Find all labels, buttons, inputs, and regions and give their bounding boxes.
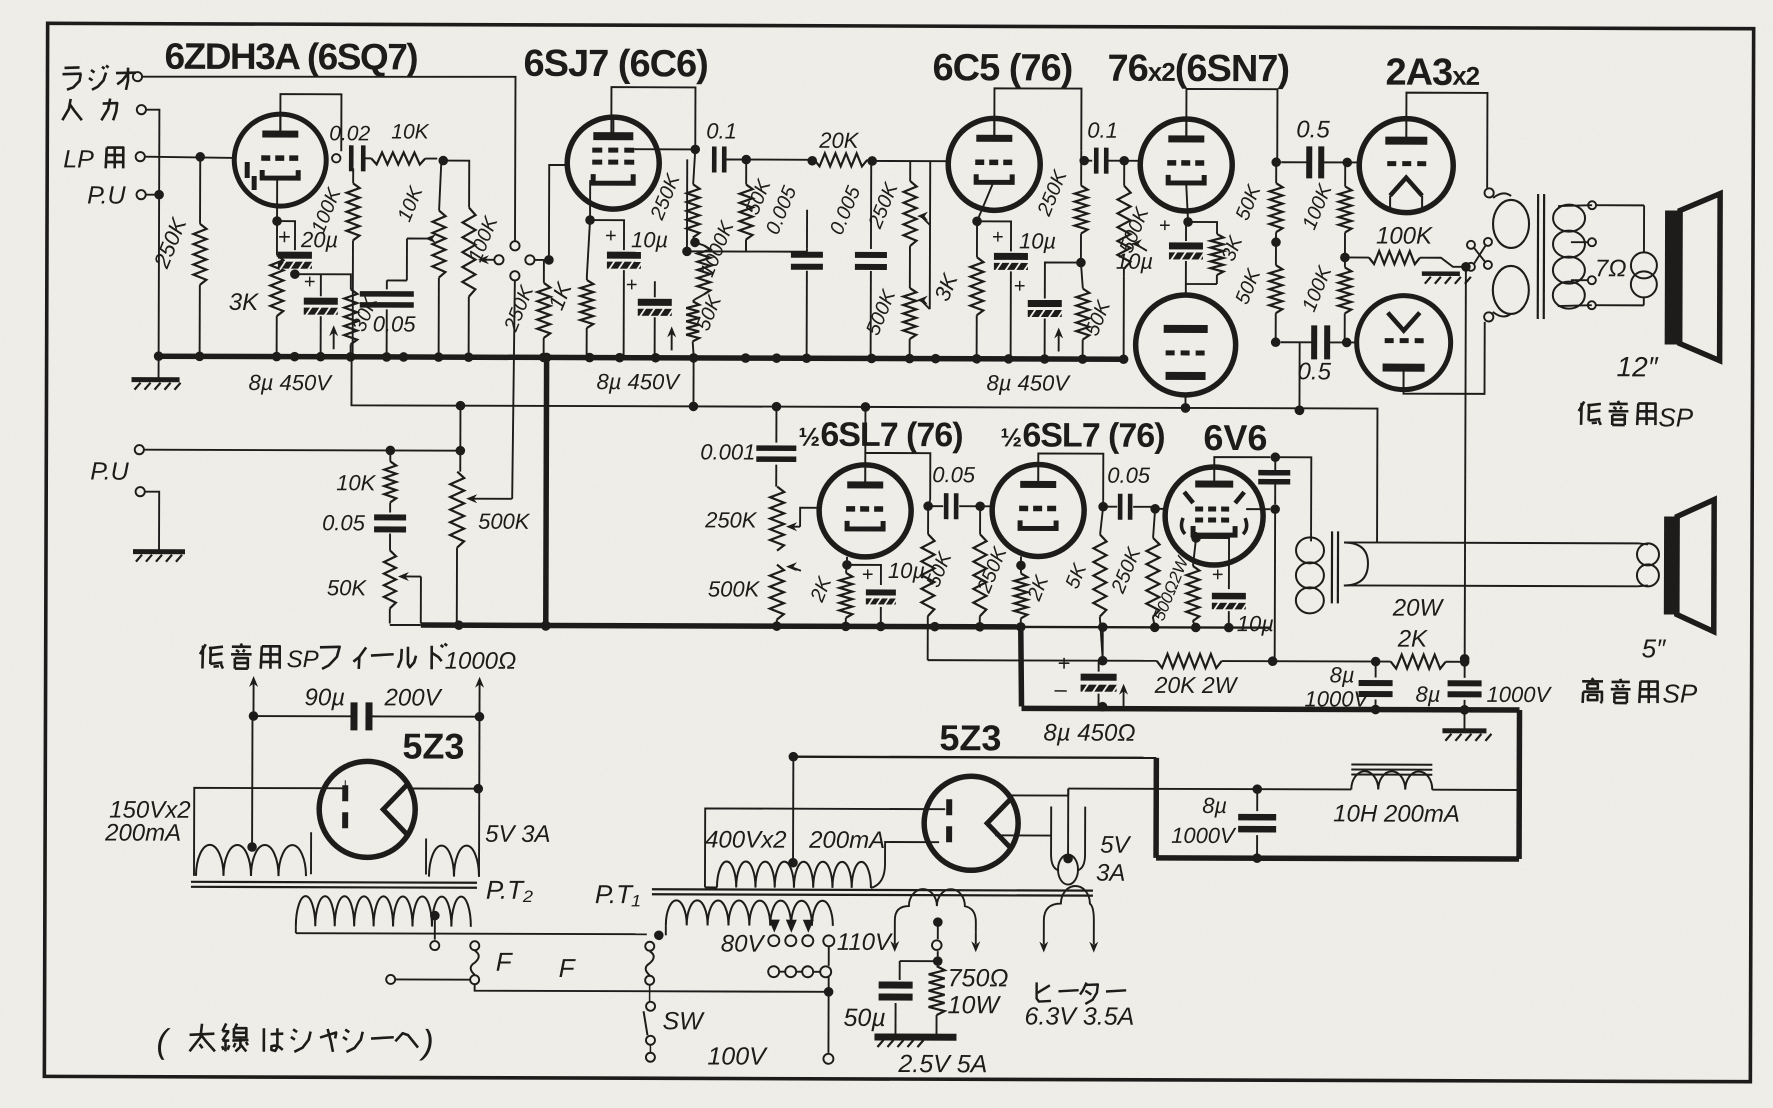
wire 6v6 grid [1155,508,1166,510]
node V2 plate node [690,145,700,155]
resistor 50K coupling [745,160,747,185]
capacitor 0.5 upper [1306,146,1312,178]
opt2 core [1331,531,1333,603]
wire pt2 tap down [434,916,436,940]
capacitor 0.5 lower [1311,325,1317,359]
fuse F pt1 terminal b [645,976,654,985]
note kanji 1 [190,1034,215,1035]
wire 20Kright to grid chain [872,160,948,162]
node 6v6 right [1270,504,1280,514]
label LP-yo kanji [106,148,107,169]
wire tweeter line bottom [1344,584,1638,587]
svg-text:–: – [1055,677,1068,702]
svg-text:1000V: 1000V [1171,823,1237,848]
capacitor 8u450V c [1028,300,1062,307]
node 01b right [1119,156,1129,166]
svg-text:+: + [605,225,617,247]
node 20K left [807,156,817,166]
tube V9 6SL7b [992,464,1084,556]
wire V3 cathode [977,180,994,221]
ground bus top [156,356,1124,359]
note kanji 2 [263,1028,266,1051]
resistor 50K pu [384,550,396,608]
node V3 cathode [972,216,982,226]
svg-text:+: + [992,226,1004,248]
wire V3 plate top [994,88,1081,150]
speaker 12in voice coil [1631,252,1657,278]
wire V4 cathode [1186,183,1188,221]
mid bus dots [454,620,464,630]
svg-text:10µ: 10µ [1116,249,1153,274]
node V8 cathode [842,560,852,570]
wire pt2 ct up [251,716,253,847]
wire 10u v3 bottom [1010,271,1012,356]
resistor 50K v2b [693,299,695,301]
resistor 250K v2 plate [693,149,695,184]
resistor 250K v3 plate [1080,151,1082,186]
svg-text:0.5: 0.5 [1296,116,1330,143]
tube V2 6SJ7 [567,117,659,209]
svg-text:6V6: 6V6 [1203,417,1267,458]
capacitor 8u1000V a [1359,680,1393,686]
wire 6v6 plate top [1214,457,1270,467]
node LP junction [195,152,205,162]
wire v2b net [686,159,688,251]
terminal input2 [137,105,146,114]
wire thick left vert [1153,758,1159,858]
wire 5V up [1067,789,1069,859]
wire thick bottom [1156,858,1519,859]
terminal 2.5V [932,940,942,950]
resistor 500K pot [450,472,464,548]
speaker 12in horn [1665,210,1680,344]
resistor 20K [814,153,867,166]
capacitor 0.05 sl7b [1118,494,1123,520]
winding 5V legs [1051,807,1085,871]
resistor 1000K [697,245,710,294]
svg-text:8µ: 8µ [1330,662,1355,687]
svg-text:SP: SP [1663,678,1698,708]
resistor 100K v1 plate [352,168,354,183]
fuse F pt1 [646,951,654,975]
svg-text:P.T₁: P.T₁ [595,879,640,909]
node pt1 ct [788,858,798,868]
svg-text:0.05: 0.05 [322,510,366,535]
wire 750 node wires [900,960,938,962]
capacitor 90u [350,702,357,730]
svg-text:+: + [862,564,874,586]
winding pt1 sec [717,861,871,887]
speaker 5in horn [1664,516,1677,614]
svg-text:500K: 500K [478,509,531,534]
svg-text:½: ½ [1000,422,1022,452]
arrow 8u450 c [1058,332,1060,352]
svg-text:90µ: 90µ [305,684,346,711]
ground heater [874,1033,956,1040]
choke core [1351,763,1432,765]
node fb [1461,262,1471,272]
svg-text:7Ω: 7Ω [1595,255,1627,282]
primary taps triangles [769,920,814,933]
opt1 cross wires [1474,248,1486,263]
wire 20u bottom [294,270,296,272]
wire tweeter line top [1344,541,1638,544]
tube V8 6SL7a [819,465,911,557]
svg-text:12″: 12″ [1617,351,1659,382]
ground bus middle [421,625,1021,627]
label tweeter SP kanji [1592,678,1594,680]
resistor 50K sn7 b [1275,242,1277,265]
arrow 2.5V a [890,941,899,952]
capacitor 8u 450ohm [1081,674,1117,681]
svg-text:P.U: P.U [87,181,126,209]
wire pt1 sec right hook [871,842,939,888]
wire V2 plate top [611,87,695,147]
resistor 500ohm 6v6 [1193,538,1196,566]
node 546 bottom [541,621,551,631]
wire V1 cathode down [276,176,278,220]
arrow 500K v4 [1135,244,1147,251]
svg-text:5Z3: 5Z3 [939,717,1001,758]
node b+ dots [689,402,699,412]
wire 5z3b plate [1008,794,1068,796]
selector contact 4 [510,271,519,280]
arrow 6.3V b [1089,942,1098,953]
tube V10 6V6 [1165,467,1263,565]
node 2.5V ct [933,917,943,927]
node rail dots [1098,656,1108,666]
arrow wiper 500K6c5 [921,300,930,309]
opt1 cross circles [1467,241,1475,249]
node 05a left [1271,157,1281,167]
wire V5 top [1185,284,1187,295]
svg-text:8µ: 8µ [1202,793,1227,818]
fuse F pt1 terminal a [645,942,654,951]
svg-text:0.05: 0.05 [932,462,976,487]
node v2 1000K [690,238,700,248]
wire pt2 to 100V line [475,985,827,992]
svg-text:76x2(6SN7): 76x2(6SN7) [1107,48,1289,91]
opt1 secondary loops [1553,205,1585,232]
wire LP to V1 grid [145,157,235,158]
tap rings row1 [768,935,779,946]
svg-text:1000V: 1000V [1487,682,1553,707]
arrow 250K tone [790,526,800,528]
svg-text:1000V: 1000V [1305,686,1371,711]
node B- dots [1098,702,1108,712]
wire to 20u [277,221,295,250]
resistor 250K 6c5grid [909,161,911,181]
node V9 plate [1098,502,1108,512]
opt1 primary terminal top [1485,188,1494,197]
wire 0.1 to 20K [725,158,812,160]
capacitor 0.05 top-section [360,291,414,297]
arrow 2.5V b [971,941,980,952]
svg-text:+: + [626,274,638,296]
node 20K right [867,156,877,166]
wire pt2 cd [396,978,470,980]
svg-text:6ZDH3A (6SQ7): 6ZDH3A (6SQ7) [164,36,417,78]
wire 2.5V ct down [937,922,939,939]
wire 400V box [705,808,945,888]
capacitor 20u electrolytic [278,252,312,259]
tube V1 6ZDH3A [234,114,326,206]
wire choke line [1068,788,1351,791]
wire bias to 8u and 30K [295,274,351,289]
svg-text:10K: 10K [336,470,377,495]
capacitor 0.02 [349,145,354,171]
arrow 8u450 a [333,329,335,349]
node choke line dots [1252,784,1262,794]
terminal PU1 [137,190,146,199]
resistor 100K fb [1345,256,1369,258]
svg-text:SP: SP [287,646,319,673]
node sl7b grid node [975,501,985,511]
wire V8 plate from B+ [864,407,866,453]
capacitor 0.005 a [791,252,823,258]
wire 6v6 right down [1274,509,1276,660]
wire 6v6 plate to opt [1275,457,1311,531]
svg-text:5Z3: 5Z3 [402,725,464,766]
terminal radio [133,72,142,81]
svg-text:250K: 250K [704,507,758,532]
arrow 500K tone [790,567,801,571]
svg-text:0.02: 0.02 [329,122,370,145]
winding pt1 primary [666,900,833,926]
svg-text:1000Ω: 1000Ω [445,648,517,675]
wire sl7a 10u [847,565,881,585]
node V1 cathode [272,216,282,226]
node ct [789,752,799,762]
wire radio to selector [142,76,516,241]
wire thick drop [1021,627,1022,707]
choke 10H loops [1351,771,1432,789]
capacitor 10u sl7 [866,589,896,595]
resistor 2K sl7b [1020,565,1022,573]
capacitor 8u450V b [638,299,672,306]
wire 6v6 cathode [1195,532,1197,536]
node V4 cathode [1183,217,1193,227]
wire cathode to 1K [587,220,590,276]
wire selector to grid bus [535,259,546,261]
wire 05b [1281,341,1312,343]
node V2 cathode [585,215,595,225]
wire V2 screen right [634,148,695,150]
wire V9 cathode [1020,556,1022,563]
terminal PU2 b [136,487,145,496]
wire V1 plate to top [280,94,341,151]
svg-text:6C5 (76): 6C5 (76) [932,47,1072,89]
svg-text:50µ: 50µ [843,1004,885,1032]
node 100V line [824,987,834,997]
node 100K mid [1340,253,1350,263]
svg-text:200mA: 200mA [104,820,181,847]
wire mid node h [746,251,807,253]
terminal LP [136,152,145,161]
svg-text:6SJ7 (6C6): 6SJ7 (6C6) [523,43,707,86]
wire feedback vertical [1465,267,1466,657]
node PU1 junction [154,190,164,200]
resistor 1K v2 [586,276,588,280]
wire V8 plate box [865,453,930,500]
selector contact 3 [525,255,534,264]
svg-text:5V 3A: 5V 3A [485,821,550,848]
svg-text:6.3V 3.5A: 6.3V 3.5A [1025,1002,1135,1030]
ground fb [1422,271,1460,276]
svg-text:6SL7 (76): 6SL7 (76) [820,416,962,454]
node sn7 mid [1271,237,1281,247]
wire PU2 line [144,449,460,452]
svg-text:SP: SP [1658,402,1693,432]
resistor 750ohm [929,966,945,1015]
resistor 3K v3 [976,221,978,257]
svg-text:500K: 500K [708,576,761,601]
svg-text:+: + [1058,651,1071,676]
winding pt2 sec right [429,846,479,877]
svg-text:8µ 450V: 8µ 450V [986,370,1071,395]
wire 0.05b leads [1102,501,1104,507]
resistor 250K tone [770,487,784,551]
bus junction dots [154,351,164,361]
svg-text:8µ 450V: 8µ 450V [597,369,682,394]
svg-text:110V: 110V [837,929,893,956]
svg-text:+: + [1159,215,1171,237]
wire v3 10u [977,221,1011,251]
core pt1 [652,889,1093,890]
terminal PU2 a [135,445,144,454]
svg-text:3K: 3K [229,289,259,316]
wire 10u v4 bottom [1186,261,1217,284]
wire V6 plate top [1406,93,1487,188]
wire 5z3a fil left [321,787,345,789]
wire input2 down [146,110,160,354]
node 5z3a plate [473,784,483,794]
arrow wiper 250K6c5 [921,216,930,225]
wire pt2 prim left leg [295,926,297,933]
capacitor 0.1 b [1094,148,1099,174]
svg-text:LP: LP [63,145,94,173]
terminal pt2 b [470,941,479,950]
wire 10u sl7 bottom [880,607,882,626]
svg-text:50K: 50K [327,575,368,600]
wire thick vertical 546 [543,357,549,625]
core pt2 [191,881,477,884]
wire pt2 prim right leg [470,919,472,927]
wire V9 plate box [1038,453,1103,500]
resistor 50K sn7 a [1275,162,1277,183]
arrow 6.3V a [1039,941,1048,952]
svg-text:100K: 100K [1376,223,1433,250]
node 6v6 top [1270,452,1280,462]
svg-text:20K 2W: 20K 2W [1154,672,1239,698]
wire 90u line [253,715,351,717]
node 90u dots [249,711,259,721]
node mid [682,247,692,257]
ground PU2 [133,549,185,554]
wire 10K out to 100K [443,161,469,208]
svg-text:750Ω: 750Ω [948,964,1009,992]
resistor 250K v2 grid [543,261,545,283]
svg-text:10W: 10W [948,991,1002,1019]
node v3 plate out [1076,258,1086,268]
node pt2 tap [430,911,440,921]
tube V11 5Z3 [319,761,415,857]
wire thick B- line [1022,708,1520,710]
wire fil to left leg [194,788,321,876]
svg-text:+: + [1014,275,1026,297]
wire 10u 6v6 bottom [1228,611,1230,627]
resistor 100K sn7 b [1344,257,1346,267]
svg-text:200V: 200V [384,684,443,711]
node 10K out [438,156,448,166]
wire sw stub [649,985,651,1001]
svg-text:400Vx2: 400Vx2 [705,826,786,853]
svg-text:0.001: 0.001 [700,439,755,464]
wire V7 bottom [1404,322,1485,394]
wire V8 plate stub [928,500,930,506]
terminal pt2 a [430,941,439,950]
svg-text:2K: 2K [1397,626,1428,653]
node 6v6 cathode [1191,533,1201,543]
svg-text:+: + [304,271,316,293]
svg-text:20W: 20W [1392,595,1445,622]
fuse F pt2 [471,951,479,975]
wire cathode to 10u [590,220,624,250]
resistor 500K tone [770,565,784,620]
resistor 250K 6v6 [1153,509,1155,538]
capacitor 10u v2 [607,252,641,259]
opt1 core [1537,194,1540,319]
node V8 plate [923,501,933,511]
winding 5V loop [1058,855,1078,885]
resistor 2K sl7a [846,565,847,573]
svg-text:5V: 5V [1100,832,1131,859]
svg-text:8µ 450Ω: 8µ 450Ω [1043,719,1135,746]
arrow 50K pu wiper [402,575,421,577]
svg-text:0.05: 0.05 [1107,463,1151,488]
resistor 3K v4 [1210,234,1223,275]
node 50Kb top [741,155,751,165]
wire plate out to cap8 [1045,262,1081,281]
winding 6.3V [1044,886,1094,945]
capacitor screen 6v6 [1258,470,1290,476]
wire 6v6 screen right [1246,508,1270,510]
svg-text:+: + [278,224,291,249]
wire V2 grid [549,165,568,260]
wire cath to 10u 6v6 [1196,538,1229,589]
wire B+ mid line [351,356,1378,542]
switch SW blade [643,1011,647,1035]
wire B center tap line [793,757,1156,758]
wire 0.05 leads [928,505,943,507]
wire screen leads [1274,457,1276,472]
node 546 top [542,353,552,363]
svg-text:P.U: P.U [90,457,129,485]
svg-text:10µ: 10µ [631,227,668,252]
svg-text:20K: 20K [818,128,860,153]
opt2 secondary loop [1344,542,1368,585]
resistor 50K v3 [1081,263,1083,289]
capacitor 0.005 b [855,252,887,258]
svg-text:10µ: 10µ [1019,228,1056,253]
node V9 cathode [1016,561,1026,571]
wire 01b wires [1081,160,1092,162]
resistor 100K sn7 a [1344,162,1346,186]
capacitor 0.001 [756,445,796,451]
selector contact 1 [510,241,519,250]
resistor 5K [1100,507,1103,535]
svg-text:0.1: 0.1 [1087,118,1118,143]
